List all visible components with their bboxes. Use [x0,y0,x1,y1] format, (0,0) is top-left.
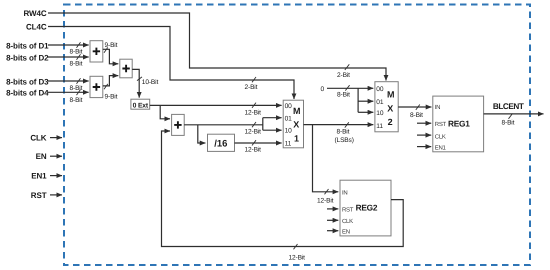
svg-text:M: M [293,106,301,116]
svg-text:8-Bit: 8-Bit [502,120,515,127]
wire D3 input [48,80,89,82]
slash 8-Bit zero [345,85,349,90]
wire CLK stub REG2 [327,219,338,221]
slash D1 8-Bit [77,42,81,48]
svg-text:10: 10 [285,127,293,134]
svg-text:2: 2 [388,117,393,127]
svg-text:(LSBs): (LSBs) [335,137,354,144]
slash 8-Bit REG1 in [416,105,420,110]
wire RST stub REG1 [417,122,431,124]
wire REG2 feedback to A4 in2 [162,131,404,247]
adder A4 [172,114,185,135]
svg-text:/16: /16 [214,138,227,149]
svg-text:11: 11 [285,141,292,148]
svg-text:REG2: REG2 [356,203,378,213]
wire fork to 01 [263,117,282,119]
slash 10-Bit [137,77,142,81]
wire RST stub REG2 [327,208,338,210]
svg-text:1: 1 [294,134,299,144]
svg-text:REG1: REG1 [448,118,470,128]
wire CLK stub [50,137,62,139]
slash 12-Bit 00 [252,103,256,108]
svg-text:BLCENT: BLCENT [493,102,524,111]
wire CL4C to MUX1 select [48,27,294,100]
wire A1 out to A3 [103,49,119,64]
wire fork to MUX2 01 [358,100,373,102]
svg-text:0 Ext: 0 Ext [133,102,149,109]
svg-text:8-bits of D1: 8-bits of D1 [6,41,49,50]
svg-text:12-Bit: 12-Bit [245,110,262,117]
svg-text:00: 00 [376,86,384,93]
svg-text:00: 00 [285,103,293,110]
svg-text:RST: RST [31,191,47,200]
svg-text:2-Bit: 2-Bit [337,72,350,79]
svg-text:RST: RST [435,121,447,128]
wire REG1 out BLCENT [484,113,544,115]
slash 12-Bit 01 [252,122,256,127]
svg-text:M: M [387,89,395,99]
slash 12-Bit 11 [252,140,256,145]
svg-text:8-bits of D4: 8-bits of D4 [6,89,49,98]
wire D1 input [48,44,89,46]
svg-text:EN: EN [342,229,350,236]
wire D4 input [48,91,89,93]
svg-text:8-bits of D2: 8-bits of D2 [6,53,49,62]
svg-text:8-Bit: 8-Bit [70,97,83,104]
block 0 Ext [131,99,150,109]
wire RST stub [50,194,62,196]
svg-text:CLK: CLK [435,133,446,140]
mux MUX1 [283,100,303,148]
svg-text:8-Bit: 8-Bit [337,92,350,99]
svg-text:8-Bit: 8-Bit [70,61,83,68]
svg-text:CLK: CLK [30,133,46,142]
wire A2 out to A3 [103,76,119,86]
slash 9-Bit A1 [104,47,108,52]
svg-text:9-Bit: 9-Bit [105,42,118,49]
svg-text:8-Bit: 8-Bit [337,129,350,136]
wire branch to /16 [198,125,206,143]
wire MUX1 out to MUX2 11 [304,124,374,126]
svg-text:12-Bit: 12-Bit [245,128,262,135]
block /16 [208,134,235,151]
svg-text:01: 01 [285,115,293,122]
svg-text:CLK: CLK [342,218,353,225]
svg-text:RST: RST [342,207,354,214]
wire fork to 10 [263,129,282,131]
svg-text:CL4C: CL4C [26,23,47,32]
adder A1 (D1+D2) [90,41,103,62]
wire EN stub [50,155,62,157]
svg-text:12-Bit: 12-Bit [245,147,262,154]
wire A4 out to MUX1 01/10 fork [184,124,263,126]
slash 12-Bit feedback [294,244,298,249]
svg-text:EN1: EN1 [31,172,47,181]
wire D2 input [48,56,89,58]
slash 8-Bit BLCENT [509,114,513,119]
svg-text:X: X [387,104,393,114]
register REG1 [433,96,484,152]
svg-text:11: 11 [376,123,383,130]
wire fork to MUX2 10 [358,111,373,113]
slash 8-Bit LSBs [345,122,349,127]
svg-text:2-Bit: 2-Bit [245,84,258,91]
slash D4 8-Bit [77,90,81,96]
wire EN stub REG2 [327,230,338,232]
svg-text:8-bits of D3: 8-bits of D3 [6,77,49,86]
svg-text:12-Bit: 12-Bit [289,255,306,262]
svg-text:10: 10 [376,110,384,117]
slash 2-Bit MUX2 select [345,64,350,70]
slash D2 8-Bit [77,54,81,60]
fork vertical [262,118,264,131]
fork vertical to 01/10 of MUX2 [357,88,359,112]
svg-text:X: X [293,120,299,130]
svg-text:9-Bit: 9-Bit [105,93,118,100]
wire /16 out to MUX1 11 [235,142,282,144]
wire EN1 stub REG1 [417,146,431,148]
svg-text:01: 01 [376,99,384,106]
register REG2 [340,180,391,236]
wire RW4C to MUX2 select [48,13,386,81]
slash 2-Bit MUX1 select [252,77,256,82]
wire MUX2 out to REG1 [398,106,431,108]
svg-text:IN: IN [435,104,440,111]
adder A3 [120,59,132,78]
wire A3 out to 0Ext [132,69,139,97]
wire CLK stub REG1 [417,134,431,136]
svg-text:12-Bit: 12-Bit [317,197,334,204]
wire branch to A4 in1 [160,105,170,118]
wire 0 to MUX2 00 [327,87,373,89]
slash D3 8-Bit [77,78,81,84]
svg-text:8-Bit: 8-Bit [70,85,83,92]
svg-text:EN1: EN1 [435,145,447,152]
adder A2 (D3+D4) [90,76,103,97]
svg-text:EN: EN [36,152,47,161]
svg-text:IN: IN [342,190,347,197]
mux MUX2 [375,82,398,132]
wire 0Ext out to MUX1 00 [150,104,282,106]
svg-text:10-Bit: 10-Bit [142,79,159,86]
wire branch MUX1 out to REG2 [313,125,339,192]
slash 9-Bit A2 [104,84,108,89]
wire EN1 stub [50,175,62,177]
svg-text:0: 0 [321,86,325,93]
svg-text:RW4C: RW4C [23,9,46,18]
slash 12-Bit REG2 in [325,189,329,194]
svg-text:8-Bit: 8-Bit [410,112,423,119]
